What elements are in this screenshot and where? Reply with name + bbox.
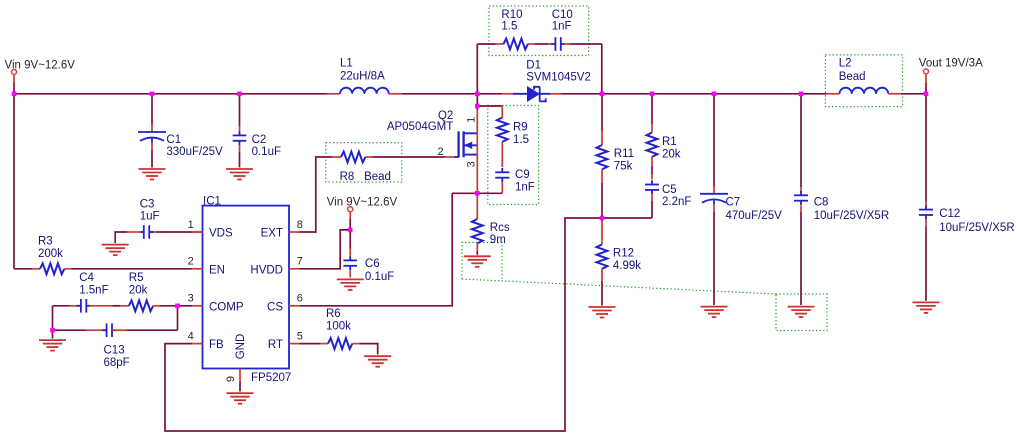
wire Vin2 stub — [349, 219, 351, 230]
pin C10 left — [548, 43, 552, 45]
pin IC1-2 EN stub — [192, 268, 202, 270]
svg-text:9m: 9m — [490, 234, 506, 246]
wire bus to C12 — [925, 94, 927, 202]
svg-text:8: 8 — [297, 219, 303, 231]
ground IC1 pin 9 — [227, 393, 254, 404]
svg-text:HVDD: HVDD — [250, 264, 283, 276]
pin L2 right — [888, 93, 901, 95]
pin D1 cathode — [551, 93, 561, 95]
svg-text:1uF: 1uF — [140, 211, 160, 223]
svg-text:1: 1 — [465, 117, 477, 123]
svg-text:5: 5 — [297, 330, 303, 342]
wire C8 to ground — [800, 212, 802, 305]
svg-text:R8: R8 — [340, 171, 355, 183]
capacitor C13 — [102, 323, 116, 337]
svg-text:R6: R6 — [326, 308, 341, 320]
pin R1 bottom — [651, 157, 653, 166]
node C1 — [150, 92, 155, 97]
pin C10 right — [564, 43, 571, 45]
resistor R6 — [328, 338, 352, 349]
svg-text:2: 2 — [437, 146, 443, 158]
wire L2 to Vout — [901, 93, 926, 95]
svg-text:1.5: 1.5 — [513, 134, 529, 146]
wire left vertical to R3 — [13, 94, 15, 269]
pin Q2 gate — [445, 156, 454, 158]
svg-text:GND: GND — [235, 334, 247, 360]
annotation diagonal dotted line — [462, 279, 776, 294]
wire bus to C8 — [800, 94, 802, 187]
capacitor C5 — [645, 180, 659, 194]
svg-text:Vout 19V/3A: Vout 19V/3A — [919, 58, 983, 70]
wire R8 to gate — [372, 156, 445, 158]
annotation box L2 — [825, 55, 902, 107]
capacitor C7 — [700, 194, 728, 205]
svg-text:0.1uF: 0.1uF — [365, 271, 394, 283]
pin R8 right — [365, 156, 372, 158]
pin C4 right — [89, 305, 112, 307]
wire Vin bus — [14, 93, 327, 95]
pin Q2 drain — [476, 110, 478, 133]
svg-text:2.2nF: 2.2nF — [662, 196, 691, 208]
pin IC1-1 VDS stub — [192, 231, 202, 233]
pin L1 left — [327, 93, 340, 95]
wire to D1 anode — [477, 93, 502, 95]
pin C2 top — [239, 126, 241, 131]
pin IC1-3 COMP stub — [192, 305, 202, 307]
svg-text:EN: EN — [209, 264, 225, 276]
annotation box Rcs ground — [462, 243, 502, 282]
wire R5 to COMP — [160, 305, 178, 307]
pin R8 left — [333, 156, 341, 158]
pin Vin2 stub — [349, 212, 351, 219]
wire output bus — [602, 93, 826, 95]
svg-text:1.5: 1.5 — [501, 21, 517, 33]
svg-text:C3: C3 — [140, 198, 155, 210]
resistor R5 — [129, 300, 153, 311]
wire bus to R1 — [651, 94, 653, 124]
svg-text:470uF/25V: 470uF/25V — [726, 210, 783, 222]
resistor R8 — [341, 152, 365, 163]
ground C6 — [337, 279, 364, 290]
svg-text:R11: R11 — [614, 148, 634, 160]
svg-text:C4: C4 — [79, 272, 94, 284]
wire comp node to ground — [52, 330, 54, 338]
pin C6 bottom — [349, 270, 351, 277]
svg-text:3: 3 — [465, 161, 477, 167]
resistor R1 — [647, 133, 658, 157]
pin IC1-5 RT stub — [289, 343, 299, 345]
svg-text:Bead: Bead — [839, 71, 866, 83]
wire HVDD — [299, 230, 350, 269]
svg-text:COMP: COMP — [209, 301, 244, 313]
pin R3 right — [64, 268, 71, 270]
pin Rcs top — [476, 193, 478, 219]
svg-text:3: 3 — [188, 293, 194, 305]
svg-text:EXT: EXT — [261, 228, 283, 240]
wire to R9 — [477, 105, 502, 107]
inductor L1 — [340, 88, 389, 94]
wire comp node right vertical — [177, 306, 179, 330]
svg-text:1: 1 — [188, 219, 194, 231]
pin C13 left — [85, 329, 107, 331]
terminal Vin — [12, 70, 17, 75]
pin R9 top — [501, 106, 503, 118]
svg-text:R9: R9 — [513, 122, 528, 134]
resistor R11 — [597, 145, 608, 169]
svg-text:Bead: Bead — [364, 171, 391, 183]
capacitor C9 — [495, 168, 509, 182]
wire C1 to ground — [151, 150, 153, 168]
svg-text:200k: 200k — [38, 248, 63, 260]
svg-text:C8: C8 — [814, 196, 829, 208]
svg-text:FP5207: FP5207 — [251, 372, 291, 384]
capacitor C12 — [919, 205, 933, 219]
wire pin9 to ground — [239, 382, 241, 392]
inductor L2 — [840, 88, 889, 94]
pin C3 right — [149, 231, 156, 233]
svg-text:6: 6 — [297, 293, 303, 305]
wire R1 to C5 — [651, 166, 653, 174]
svg-text:FB: FB — [209, 339, 224, 351]
svg-text:R1: R1 — [662, 136, 677, 148]
transistor Q2 — [459, 131, 464, 157]
resistor R3 — [40, 263, 64, 274]
ground R6 — [364, 356, 391, 367]
svg-text:C7: C7 — [726, 196, 741, 208]
svg-text:R12: R12 — [613, 248, 634, 260]
capacitor C2 — [233, 131, 247, 145]
pin C5 bottom — [651, 194, 653, 201]
svg-text:C9: C9 — [515, 169, 530, 181]
wire C2 to ground — [239, 152, 241, 168]
svg-text:1nF: 1nF — [552, 21, 572, 33]
pin C5 top — [651, 174, 653, 179]
pin C12 top — [925, 202, 927, 207]
svg-text:CS: CS — [267, 301, 283, 313]
pin C8 bottom — [800, 205, 802, 212]
svg-text:2: 2 — [188, 256, 194, 268]
pin R5 right — [153, 305, 160, 307]
pin C13 right — [112, 329, 127, 331]
pin L2 left — [826, 93, 839, 95]
pin Vin stub — [13, 75, 15, 83]
pin Rcs bottom — [476, 243, 478, 251]
wire R6 to ground — [359, 344, 377, 355]
annotation box R10/C10 snubber — [489, 6, 589, 56]
svg-text:RT: RT — [268, 339, 283, 351]
resistor Rcs — [472, 219, 483, 243]
ground C12 — [913, 302, 940, 313]
node Q2 source — [475, 191, 480, 196]
resistor R9 — [497, 118, 508, 142]
svg-text:C13: C13 — [104, 345, 125, 357]
pin R10 left — [496, 43, 504, 45]
annotation box R9/C9 snubber — [488, 106, 539, 205]
wire to R10 — [477, 43, 495, 45]
wire snubber right vertical — [601, 44, 603, 94]
node R1 — [650, 92, 655, 97]
node COMP — [175, 304, 180, 309]
pin C6 top — [349, 249, 351, 256]
wire bus to C7 — [713, 94, 715, 187]
wire bus to R11 — [601, 94, 603, 131]
wire Vin stub — [13, 83, 15, 94]
svg-text:C12: C12 — [939, 208, 960, 220]
pin R12 top — [601, 218, 603, 244]
pin C1 top — [151, 125, 153, 132]
node FB — [600, 216, 605, 221]
svg-text:VDS: VDS — [209, 228, 233, 240]
svg-text:1nF: 1nF — [515, 181, 535, 193]
op-amp U1 IC1 FP5207 body — [203, 206, 290, 369]
ground C3 — [102, 245, 129, 256]
wire CS net — [299, 193, 452, 305]
wire comp node left vertical — [52, 306, 54, 330]
pin IC1-6 CS stub — [289, 305, 299, 307]
wire D1 cathode to node — [561, 93, 602, 95]
svg-text:Vin 9V~12.6V: Vin 9V~12.6V — [5, 60, 76, 72]
svg-text:IC1: IC1 — [203, 196, 221, 208]
ground C1 — [139, 169, 166, 180]
pin R1 top — [651, 124, 653, 133]
node Vin-bus — [12, 92, 17, 97]
pin R12 bottom — [601, 269, 603, 281]
svg-text:330uF/25V: 330uF/25V — [166, 146, 223, 158]
capacitor C6 — [343, 256, 357, 270]
node switch — [475, 92, 480, 97]
wire to R3 — [14, 268, 32, 270]
wire C10 to right vertical — [571, 43, 602, 45]
capacitor C8 — [794, 191, 808, 205]
wire FB net — [165, 218, 652, 431]
node Vout-snubber — [600, 92, 605, 97]
svg-text:L1: L1 — [340, 58, 353, 70]
node comp-gnd — [50, 328, 55, 333]
svg-text:100k: 100k — [326, 320, 351, 332]
node Vout — [924, 92, 929, 97]
ground C7 — [701, 307, 728, 318]
wire snubber left vertical — [476, 44, 478, 94]
svg-text:Rcs: Rcs — [490, 222, 510, 234]
terminal Vout — [924, 69, 929, 74]
pin IC1-7 HVDD stub — [289, 268, 299, 270]
wire C5 to FB rail — [651, 201, 653, 218]
svg-text:SVM1045V2: SVM1045V2 — [526, 71, 591, 83]
pin R5 left — [121, 305, 129, 307]
ground C8 — [788, 307, 815, 318]
svg-text:L2: L2 — [839, 57, 852, 69]
node HVDD — [348, 228, 353, 233]
pin C12 bottom — [925, 219, 927, 226]
pin R3 left — [32, 268, 40, 270]
wire C9 return — [477, 192, 502, 194]
svg-text:22uH/8A: 22uH/8A — [340, 71, 385, 83]
wire C13 to comp node — [127, 329, 178, 331]
node C2 — [237, 92, 242, 97]
annotation box C8 ground — [776, 294, 827, 331]
pin C3 left — [127, 231, 141, 233]
node Q2 drain — [475, 104, 480, 109]
pin Vout stub — [925, 75, 927, 83]
wire C7 to ground — [713, 212, 715, 305]
wire bus to C2 — [239, 94, 241, 126]
capacitor C4 — [77, 299, 91, 313]
ground C2 — [226, 169, 253, 180]
svg-text:R3: R3 — [38, 236, 53, 248]
terminal Vin 2 — [348, 207, 353, 212]
svg-text:1.5nF: 1.5nF — [79, 285, 108, 297]
node C8 — [799, 92, 804, 97]
ground R12 — [589, 307, 616, 318]
wire COMP to junction — [178, 305, 193, 307]
wire Rcs to ground — [476, 251, 478, 255]
wire source to CS corner — [452, 192, 477, 194]
pin R6 right — [352, 343, 359, 345]
svg-text:C2: C2 — [252, 134, 267, 146]
svg-text:C6: C6 — [365, 258, 380, 270]
capacitor C3 — [140, 225, 154, 239]
wire to C6 — [349, 230, 351, 249]
resistor R10 — [504, 39, 528, 50]
wire RT to R6 — [299, 343, 320, 345]
wire Vout stub — [925, 83, 927, 94]
pin C7 bottom — [713, 205, 715, 212]
wire to C4 — [53, 305, 70, 307]
pin C7 top — [713, 187, 715, 194]
wire C3 to ground — [115, 232, 127, 243]
pin IC1-4 FB stub — [192, 343, 202, 345]
wire R3 to EN — [71, 268, 192, 270]
wire R11 to FB rail — [601, 183, 603, 218]
svg-text:C10: C10 — [552, 9, 573, 21]
pin R10 right — [528, 43, 535, 45]
pin L1 right — [389, 93, 402, 95]
wire C12 to ground — [925, 227, 927, 301]
svg-text:Vin 9V~12.6V: Vin 9V~12.6V — [327, 196, 398, 208]
wire switch node bus — [402, 93, 477, 95]
svg-text:R5: R5 — [129, 272, 144, 284]
svg-text:4: 4 — [188, 330, 194, 342]
svg-text:0.1uF: 0.1uF — [252, 146, 281, 158]
pin IC1-9 GND stub — [239, 369, 241, 382]
pin IC1-8 EXT stub — [289, 231, 299, 233]
svg-text:20k: 20k — [662, 148, 681, 160]
svg-text:R10: R10 — [501, 9, 522, 21]
pin C9 bottom — [501, 182, 503, 193]
ground comp network — [39, 340, 66, 351]
pin R6 left — [320, 343, 328, 345]
diode D1 — [513, 86, 551, 102]
pin Q2 source — [476, 155, 478, 194]
svg-text:20k: 20k — [129, 285, 148, 297]
svg-text:9: 9 — [225, 376, 237, 382]
svg-text:C5: C5 — [662, 184, 677, 196]
node C7 — [712, 92, 717, 97]
pin C2 bottom — [239, 145, 241, 152]
pin C4 left — [70, 305, 79, 307]
svg-text:7: 7 — [297, 256, 303, 268]
wire bus to Q2 drain — [476, 94, 478, 110]
resistor R12 — [597, 244, 608, 268]
pin R11 bottom — [601, 169, 603, 183]
svg-text:D1: D1 — [526, 60, 541, 72]
capacitor C1 — [138, 132, 166, 143]
pin C1 bottom — [151, 143, 153, 150]
svg-text:4.99k: 4.99k — [613, 260, 641, 272]
svg-text:68pF: 68pF — [104, 357, 130, 369]
wire C4 to R5 — [112, 305, 120, 307]
ground Rcs — [464, 256, 491, 267]
svg-text:AP0504GMT: AP0504GMT — [387, 121, 453, 133]
wire bus to C1 — [151, 94, 153, 125]
wire pin1 to C3 — [157, 231, 192, 233]
capacitor C10 — [551, 37, 565, 51]
svg-text:75k: 75k — [614, 160, 633, 172]
svg-text:C1: C1 — [166, 134, 181, 146]
svg-text:10uF/25V/X5R: 10uF/25V/X5R — [814, 210, 889, 222]
pin C8 top — [800, 187, 802, 193]
pin R9-C9 — [501, 142, 503, 167]
wire R12 to ground — [601, 281, 603, 306]
wire to C13 — [53, 329, 86, 331]
annotation box R8 — [326, 143, 402, 182]
wire R10 to C10 — [535, 43, 549, 45]
pin R11 top — [601, 131, 603, 145]
svg-text:10uF/25V/X5R: 10uF/25V/X5R — [939, 222, 1014, 234]
pin D1 anode — [502, 93, 513, 95]
wire EXT to R8 — [299, 157, 332, 232]
